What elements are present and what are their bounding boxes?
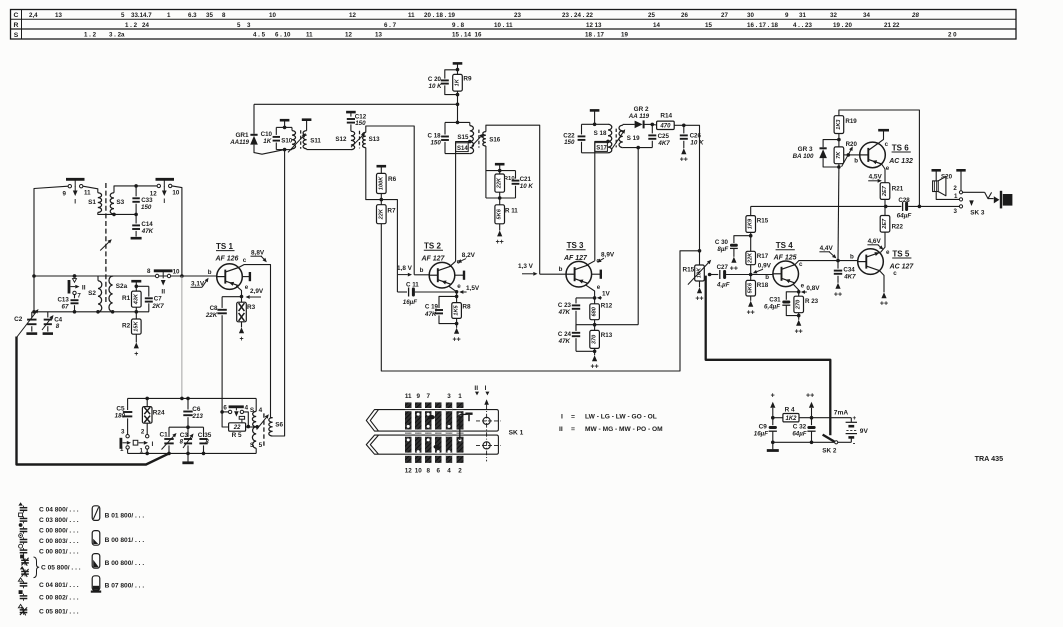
svg-text:180: 180 bbox=[115, 413, 126, 420]
svg-text:4,6V: 4,6V bbox=[868, 238, 882, 245]
svg-text:TS 3: TS 3 bbox=[567, 241, 584, 250]
oscillator bottom wire y453.4 bbox=[128, 452, 257, 456]
capacitor C22 150 bbox=[563, 124, 585, 153]
svg-text:c: c bbox=[243, 257, 247, 264]
coil S17 bbox=[595, 140, 612, 153]
svg-text:4K7: 4K7 bbox=[657, 140, 670, 147]
top supply rail y104.3 bbox=[254, 103, 459, 107]
chassis above R10 bbox=[495, 164, 505, 170]
svg-text:AA119: AA119 bbox=[229, 139, 249, 146]
svg-text:S17: S17 bbox=[596, 146, 607, 152]
svg-text:12: 12 bbox=[345, 32, 352, 39]
svg-text:11: 11 bbox=[405, 393, 412, 400]
capacitor C8 22K (emitter to oscillator) bbox=[205, 297, 242, 412]
wire contact 11 to S1 top bbox=[83, 186, 98, 193]
svg-text:1: 1 bbox=[140, 448, 144, 455]
svg-text:C27: C27 bbox=[717, 264, 729, 271]
svg-text:1K2: 1K2 bbox=[785, 416, 797, 422]
svg-text:++: ++ bbox=[591, 364, 599, 371]
label e TS4 bbox=[801, 282, 805, 289]
svg-text:8,8V: 8,8V bbox=[251, 249, 265, 256]
capacitor C30 8uF (electrolytic) bbox=[715, 236, 751, 273]
svg-text:R18: R18 bbox=[757, 282, 769, 289]
chassis above R6 bbox=[377, 166, 387, 173]
svg-text:15: 15 bbox=[705, 22, 712, 29]
capacitor C12 150 bbox=[347, 113, 367, 131]
voltage label 4,6V at TS5 emitter bbox=[867, 238, 883, 249]
oscillator core (dashed) bbox=[263, 413, 265, 446]
wire from switch contact 9 down left rail to C2 bbox=[34, 186, 68, 312]
svg-text:9: 9 bbox=[416, 393, 420, 400]
svg-text:AF 127: AF 127 bbox=[421, 255, 446, 262]
svg-text:12: 12 bbox=[349, 12, 356, 19]
svg-text:e: e bbox=[457, 283, 461, 290]
svg-text:++: ++ bbox=[730, 265, 738, 272]
svg-text:9: 9 bbox=[785, 12, 789, 19]
svg-text:B 07 800/ . . .: B 07 800/ . . . bbox=[105, 582, 145, 589]
svg-text:31: 31 bbox=[799, 12, 806, 19]
svg-text:TS 4: TS 4 bbox=[776, 241, 793, 250]
svg-text:1,5V: 1,5V bbox=[466, 285, 480, 292]
svg-text:b: b bbox=[420, 267, 424, 274]
svg-text:1: 1 bbox=[458, 393, 462, 400]
svg-text:S: S bbox=[250, 442, 255, 449]
svg-text:2: 2 bbox=[141, 429, 145, 436]
IF core S15/S16 (dashed) bbox=[478, 130, 480, 148]
svg-text:47K: 47K bbox=[424, 311, 437, 318]
svg-text:++: ++ bbox=[747, 309, 755, 316]
wire TS5 collector down to supply bbox=[880, 271, 888, 308]
svg-text:23: 23 bbox=[514, 12, 521, 19]
wire TS2 base bbox=[414, 274, 429, 276]
tuned circuit S15/S14 loop bbox=[445, 122, 470, 153]
svg-text:6: 6 bbox=[223, 405, 227, 412]
svg-text:++: ++ bbox=[680, 157, 688, 164]
svg-text:5K6: 5K6 bbox=[497, 208, 503, 219]
svg-text:2,9V: 2,9V bbox=[250, 288, 264, 295]
svg-text:7: 7 bbox=[426, 393, 430, 400]
resistor R10 22K bbox=[495, 171, 515, 198]
resistor R6 100K bbox=[377, 173, 397, 201]
svg-text:C 00 803/ . . .: C 00 803/ . . . bbox=[39, 538, 79, 545]
variable capacitor C2 bbox=[14, 310, 37, 334]
svg-text:C 30: C 30 bbox=[715, 239, 729, 246]
resistor R19 1K3 bbox=[834, 116, 857, 142]
capacitor C7 2K7 bbox=[136, 286, 164, 312]
coil S3 bbox=[110, 193, 124, 214]
voltage label 8,9V at TS3 collector bbox=[597, 251, 615, 262]
svg-text:S11: S11 bbox=[310, 137, 321, 144]
wire R22 to TS5 emitter bbox=[881, 232, 886, 252]
svg-text:R9: R9 bbox=[463, 76, 472, 83]
label 7mA bbox=[834, 409, 849, 416]
transistor TS2 AF127 bbox=[420, 242, 455, 288]
svg-text:3 . 2a: 3 . 2a bbox=[109, 32, 125, 39]
svg-text:S13: S13 bbox=[369, 136, 381, 143]
coil S2 bbox=[88, 276, 102, 312]
svg-text:1,3 V: 1,3 V bbox=[518, 263, 534, 270]
tuned circuit S18/S17 loop bbox=[582, 123, 609, 153]
svg-text:C6: C6 bbox=[192, 406, 201, 413]
wire S20 to SK3 contact 1 bbox=[936, 192, 959, 200]
svg-text:++: ++ bbox=[834, 291, 842, 298]
resistor R8 1K5 bbox=[452, 296, 471, 343]
faint wire TS1 base node down to oscillator wire bbox=[180, 276, 184, 400]
svg-text:2E7: 2E7 bbox=[882, 218, 888, 230]
svg-text:6,4µF: 6,4µF bbox=[764, 304, 780, 311]
svg-text:AF 126: AF 126 bbox=[215, 256, 239, 263]
capacitor C23 47K bbox=[558, 298, 595, 331]
label c TS6 bbox=[885, 141, 889, 148]
wire S13 bottom to R6/R7 node bbox=[366, 148, 382, 200]
svg-text:B 00 801/ . . .: B 00 801/ . . . bbox=[105, 537, 145, 544]
jack plug arrow bbox=[969, 200, 974, 206]
svg-text:22K: 22K bbox=[205, 312, 218, 319]
svg-text:C31: C31 bbox=[769, 296, 781, 303]
svg-text:4,4V: 4,4V bbox=[820, 245, 834, 252]
svg-text:c: c bbox=[799, 261, 803, 268]
svg-text:35: 35 bbox=[206, 12, 213, 19]
svg-text:1,8 V: 1,8 V bbox=[397, 265, 413, 272]
svg-text:1V: 1V bbox=[602, 291, 611, 298]
coil S16 bbox=[483, 132, 501, 146]
chassis above R9 bbox=[453, 63, 463, 69]
capacitor C11 16uF (electrolytic) bbox=[397, 281, 454, 306]
capacitor C26 10K bbox=[680, 125, 704, 163]
svg-text:6 . 10: 6 . 10 bbox=[275, 32, 291, 39]
svg-text:R6: R6 bbox=[388, 176, 397, 183]
svg-text:5K6: 5K6 bbox=[748, 282, 754, 293]
svg-text:b: b bbox=[854, 157, 858, 164]
svg-text:II: II bbox=[161, 288, 165, 295]
ground below C6/C3 bbox=[182, 453, 193, 462]
svg-text:S20: S20 bbox=[941, 174, 953, 181]
resistor R4 1K2 bbox=[771, 407, 851, 422]
voltage label 1,5V at TS2 emitter bbox=[459, 285, 480, 294]
svg-text:++: ++ bbox=[453, 336, 461, 343]
wire S11 bottom to S12 bottom bbox=[307, 148, 351, 151]
band switch SK1 wafer diagram bbox=[366, 385, 523, 475]
svg-text:10: 10 bbox=[173, 269, 180, 276]
svg-text:R22: R22 bbox=[892, 223, 904, 230]
svg-text:II: II bbox=[82, 285, 86, 292]
wire S19 bottom to C25 and down bbox=[623, 146, 653, 325]
resistor R13 370 bbox=[576, 325, 613, 371]
svg-text:16 . 17 . 18: 16 . 17 . 18 bbox=[747, 22, 779, 29]
capacitor C21 10K bbox=[512, 171, 534, 198]
tuning gang arrow C2 to chassis bus bbox=[17, 309, 39, 338]
svg-text:C 05 801/ . . .: C 05 801/ . . . bbox=[39, 609, 79, 616]
voltage label 4,4V at collector node bbox=[819, 245, 836, 258]
svg-text:2 0: 2 0 bbox=[948, 32, 957, 39]
coil S13 bbox=[363, 132, 381, 147]
wire TS1 emitter to junction bbox=[236, 286, 243, 299]
TS6 collector to chassis bbox=[878, 130, 889, 143]
svg-text:C 11: C 11 bbox=[406, 281, 419, 288]
svg-text:2,4: 2,4 bbox=[29, 12, 38, 19]
svg-text:4 . 5: 4 . 5 bbox=[253, 32, 266, 39]
svg-text:TS 6: TS 6 bbox=[892, 143, 909, 152]
wire AGC tap to R12/R13 node bbox=[576, 324, 638, 326]
svg-text:B 01 800/ . . .: B 01 800/ . . . bbox=[105, 512, 145, 519]
svg-text:28: 28 bbox=[911, 12, 919, 19]
resistor R2 15K bbox=[122, 312, 141, 358]
coil S12 bbox=[335, 131, 354, 149]
wire S3 top to contact 12 bbox=[114, 184, 157, 193]
svg-text:GR 3: GR 3 bbox=[798, 146, 813, 153]
svg-text:R12: R12 bbox=[601, 302, 613, 309]
svg-text:B 00 800/ . . .: B 00 800/ . . . bbox=[105, 560, 145, 567]
switch plate contact 7 with arrow II bbox=[69, 274, 86, 299]
label e TS1 bbox=[245, 284, 249, 291]
svg-text:1K3: 1K3 bbox=[836, 119, 842, 130]
svg-text:15K: 15K bbox=[133, 321, 139, 332]
svg-text:SK 2: SK 2 bbox=[822, 448, 837, 455]
svg-text:22K: 22K bbox=[378, 208, 384, 220]
resistor R12 680 bbox=[590, 298, 613, 327]
svg-text:34: 34 bbox=[863, 12, 870, 19]
jack switch lever bbox=[963, 192, 994, 198]
svg-text:R14: R14 bbox=[660, 113, 672, 120]
wiper wire to C27 bbox=[708, 273, 718, 277]
svg-text:b: b bbox=[850, 254, 854, 261]
svg-text:C33: C33 bbox=[141, 197, 153, 204]
switch plate contacts 6-4 bbox=[220, 405, 250, 429]
tuning arrow through ferrite rod bbox=[100, 239, 112, 250]
legend C 05 800 double row with brace bbox=[20, 555, 81, 578]
svg-text:+: + bbox=[239, 336, 243, 343]
capacitor C31 6,4uF (electrolytic) bbox=[764, 292, 799, 316]
adjust arrow S12/S13 bbox=[351, 133, 365, 147]
diode GR2 AA119 bbox=[623, 106, 654, 128]
svg-text:++: ++ bbox=[695, 296, 703, 303]
svg-text:S14: S14 bbox=[457, 146, 468, 152]
svg-text:0,8V: 0,8V bbox=[806, 285, 820, 292]
svg-text:e: e bbox=[801, 282, 805, 289]
wire trimmer bus y427.2 bbox=[169, 425, 204, 429]
svg-text:C 35: C 35 bbox=[198, 432, 212, 439]
voltage label 2,9V at TS1 emitter bbox=[246, 288, 264, 299]
svg-text:1 . 2: 1 . 2 bbox=[84, 32, 97, 39]
svg-text:1K: 1K bbox=[455, 78, 461, 86]
voltage label 3,1V at TS1 base bbox=[191, 278, 209, 288]
svg-text:13: 13 bbox=[55, 12, 62, 19]
label c TS4 bbox=[799, 261, 803, 268]
svg-text:R 5: R 5 bbox=[232, 432, 242, 439]
voltage label 1V at TS3 emitter bbox=[597, 291, 611, 300]
volume potentiometer R15 10K bbox=[682, 260, 711, 303]
voltage label 8,8V at TS1 collector bbox=[251, 249, 267, 262]
svg-text:3: 3 bbox=[954, 208, 958, 215]
svg-text:R1: R1 bbox=[122, 295, 131, 302]
svg-text:8,9V: 8,9V bbox=[601, 251, 615, 258]
svg-text:AC 132: AC 132 bbox=[888, 158, 913, 165]
supply marker + above C9 bbox=[770, 392, 775, 417]
IF core S10/S11 (dashed) bbox=[300, 130, 302, 149]
svg-text:5: 5 bbox=[259, 442, 263, 449]
label e TS6 bbox=[886, 165, 890, 172]
svg-text:c: c bbox=[885, 141, 889, 148]
svg-text:27: 27 bbox=[721, 12, 728, 19]
transistor TS1 AF126 bbox=[208, 242, 243, 289]
voltage label 1,3V at TS3 base bbox=[518, 263, 538, 276]
capacitor C19 47K bbox=[424, 296, 457, 323]
svg-text:R19: R19 bbox=[845, 118, 857, 125]
resistor R24 (hatched) bbox=[142, 398, 165, 434]
legend B coil/transformer code rows bbox=[91, 506, 145, 592]
svg-text:e: e bbox=[597, 284, 601, 291]
svg-text:b: b bbox=[208, 269, 212, 276]
svg-text:10: 10 bbox=[269, 12, 276, 19]
svg-text:8: 8 bbox=[147, 268, 151, 275]
svg-text:e: e bbox=[886, 165, 890, 172]
core-adjust symbol above R5 bbox=[239, 416, 244, 422]
capacitor C33 150 bbox=[132, 186, 153, 215]
wire contact 10 down to band-II bus bbox=[172, 186, 182, 276]
switch SK2 bbox=[822, 435, 838, 455]
adjust arrow S18/S19 bbox=[612, 129, 625, 149]
svg-text:++: ++ bbox=[496, 239, 504, 246]
wire band-II bus y276 from left rail to TS1 base bbox=[32, 274, 217, 278]
svg-text:7K: 7K bbox=[836, 151, 842, 159]
svg-text:C 05 800/ . . .: C 05 800/ . . . bbox=[41, 565, 81, 572]
svg-text:8: 8 bbox=[222, 12, 226, 19]
thick audio/supply line to SK2 bbox=[706, 276, 831, 436]
svg-text:11: 11 bbox=[84, 190, 91, 197]
wire R20 node down to TS4 collector node bbox=[837, 167, 840, 261]
svg-text:14: 14 bbox=[653, 22, 660, 29]
tuning arrow through S4/S5/S6 bbox=[257, 414, 269, 429]
chassis above SK3 contact 2 bbox=[956, 170, 965, 190]
svg-text:e: e bbox=[886, 249, 890, 256]
switch plate contacts 8-10 (band II) bbox=[147, 268, 180, 295]
svg-text:13: 13 bbox=[375, 32, 382, 39]
chassis above S11 bbox=[302, 120, 312, 131]
svg-text:I: I bbox=[152, 441, 154, 448]
wire S13 top to TS2 base bbox=[366, 126, 414, 275]
svg-text:S2: S2 bbox=[88, 290, 96, 297]
wire TS1 collector to S6 top bbox=[239, 265, 271, 418]
svg-text:1K: 1K bbox=[263, 138, 271, 145]
wire TS6 emitter to R21 bbox=[882, 164, 885, 183]
svg-text:16µF: 16µF bbox=[403, 299, 417, 306]
top rail TS6 bbox=[839, 110, 920, 206]
svg-text:C28: C28 bbox=[898, 197, 910, 204]
voltage label 1,8V at TS2 base bbox=[397, 265, 413, 277]
svg-text:R 4: R 4 bbox=[785, 407, 795, 414]
svg-text:C3: C3 bbox=[180, 432, 189, 439]
wire S5 bottom to oscillator bottom bbox=[255, 448, 257, 453]
svg-text:C 24: C 24 bbox=[558, 331, 572, 338]
resistor R5 22 bbox=[222, 412, 259, 439]
svg-text:10 . 11: 10 . 11 bbox=[494, 22, 513, 29]
svg-text:9 . 8: 9 . 8 bbox=[452, 22, 465, 29]
svg-text:10 K: 10 K bbox=[690, 139, 704, 146]
svg-text:16: 16 bbox=[475, 32, 482, 39]
svg-text:5: 5 bbox=[237, 22, 241, 29]
svg-text:11: 11 bbox=[408, 12, 415, 19]
svg-text:3: 3 bbox=[247, 22, 251, 29]
svg-text:47K: 47K bbox=[558, 338, 571, 345]
svg-text:2: 2 bbox=[458, 468, 462, 475]
headphone plug symbol bbox=[994, 191, 1013, 209]
voltage label 0,8V at TS4 emitter bbox=[801, 285, 820, 294]
svg-text:R 11: R 11 bbox=[505, 207, 518, 214]
svg-text:12 13: 12 13 bbox=[586, 22, 602, 29]
svg-text:S: S bbox=[14, 32, 19, 39]
svg-text:12: 12 bbox=[405, 468, 413, 475]
resistor R1 4K3 bbox=[122, 286, 141, 312]
svg-text:64µF: 64µF bbox=[897, 213, 913, 220]
capacitor C14 47K bbox=[131, 214, 154, 238]
resistor R22 2E7 bbox=[880, 206, 903, 232]
svg-text:10 K: 10 K bbox=[520, 183, 534, 190]
svg-text:4,5V: 4,5V bbox=[869, 173, 883, 180]
coil S14 bbox=[456, 140, 474, 154]
svg-text:R: R bbox=[14, 22, 19, 29]
diode GR3 BA100 bbox=[793, 140, 839, 167]
transistor TS6 AC132 bbox=[854, 142, 913, 168]
svg-text:R8: R8 bbox=[462, 303, 471, 310]
capacitor C9 16uF (electrolytic) bbox=[754, 418, 777, 444]
resistor R20 7K (preset) bbox=[834, 140, 857, 169]
svg-text:S15: S15 bbox=[457, 134, 469, 141]
svg-text:C: C bbox=[14, 12, 19, 19]
coil S10 bbox=[281, 127, 295, 149]
transistor TS3 AF127 bbox=[559, 241, 592, 287]
svg-text:1: 1 bbox=[954, 193, 958, 200]
svg-text:16µF: 16µF bbox=[754, 431, 768, 438]
resistor R16 1K9 bbox=[746, 206, 769, 237]
wire S16 bottom to R10 loop bbox=[485, 146, 487, 198]
svg-text:C 04 801/ . . .: C 04 801/ . . . bbox=[39, 582, 79, 589]
svg-text:I: I bbox=[163, 198, 165, 205]
svg-text:19: 19 bbox=[621, 32, 628, 39]
svg-text:b: b bbox=[559, 266, 563, 273]
label e TS5 bbox=[886, 249, 890, 256]
battery 9V bbox=[838, 415, 869, 447]
svg-text:9: 9 bbox=[63, 190, 67, 197]
coil S6 bbox=[269, 418, 284, 436]
svg-text:24: 24 bbox=[142, 22, 149, 29]
svg-text:10 K: 10 K bbox=[429, 83, 443, 90]
capacitor C28 64uF (electrolytic) bbox=[897, 197, 913, 219]
svg-text:C5: C5 bbox=[116, 405, 125, 412]
svg-text:R20: R20 bbox=[846, 141, 858, 148]
svg-text:22K: 22K bbox=[497, 177, 503, 189]
svg-text:S6: S6 bbox=[275, 421, 283, 428]
svg-text:S2a: S2a bbox=[116, 283, 128, 290]
svg-text:9V: 9V bbox=[860, 428, 869, 435]
svg-text:1K9: 1K9 bbox=[748, 218, 754, 229]
switch contacts 3-2-1 with plate I bbox=[120, 429, 153, 455]
svg-text:R24: R24 bbox=[153, 409, 165, 416]
svg-text:S 19: S 19 bbox=[627, 135, 640, 142]
label c TS5 bbox=[893, 270, 897, 277]
IF core S18/S19 (dashed) bbox=[615, 129, 617, 148]
band legend I bbox=[561, 413, 657, 420]
svg-text:8: 8 bbox=[426, 468, 430, 475]
capacitor C6 213 bbox=[183, 398, 203, 427]
svg-text:12: 12 bbox=[150, 190, 157, 197]
voltage label 4,5V at TS6 emitter bbox=[868, 173, 882, 182]
shield lead TS2 bbox=[455, 271, 464, 280]
svg-text:22: 22 bbox=[233, 425, 241, 431]
wire TS2 emitter to junction bbox=[449, 286, 459, 294]
svg-text:S10: S10 bbox=[281, 137, 293, 144]
variable capacitor C4 8 bbox=[42, 312, 63, 334]
svg-text:30: 30 bbox=[747, 12, 754, 19]
